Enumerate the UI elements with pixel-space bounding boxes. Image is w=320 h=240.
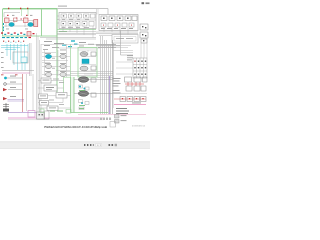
block: right lamp cluster 2 xyxy=(120,97,146,102)
wire: red rail cluster 2 xyxy=(114,98,146,100)
wire: ECU internal xyxy=(81,50,96,74)
switch S1 (cyan box) xyxy=(21,57,27,63)
horn H2 (red) xyxy=(3,97,7,100)
wire: center links xyxy=(38,81,71,109)
wire: cyan harness horizontals xyxy=(1,46,28,50)
wire: drops from far-right cluster to grid xyxy=(141,38,147,58)
node: teal taps xyxy=(62,45,66,46)
node row: red terminal dots xyxy=(3,41,24,43)
battery BT1 xyxy=(3,103,9,112)
block: green box (right empty half) xyxy=(42,9,58,36)
svg-text:4/17/2018 1:05: 4/17/2018 1:05 xyxy=(132,125,146,127)
label relay names xyxy=(45,53,66,72)
label green codes bottom xyxy=(40,109,44,113)
header page label B-1 xyxy=(142,2,150,4)
wire: green highlighted bus (double vertical) xyxy=(71,77,75,113)
wire: purple horizontal xyxy=(8,112,38,114)
wire xyxy=(7,83,23,85)
wire: cyan drops below switch xyxy=(22,63,25,71)
connector J8 xyxy=(91,93,96,97)
wire: long pink bottom rail xyxy=(8,117,104,119)
relay K1 (cyan) xyxy=(45,54,51,58)
label center tiny xyxy=(49,79,64,105)
label top bus xyxy=(58,6,67,7)
fuse F1 (red box) xyxy=(34,20,38,27)
relay K4 xyxy=(60,64,66,68)
pin row module A top xyxy=(61,14,95,20)
wire: feeder from green box to module A xyxy=(57,16,59,23)
gauge G3 (dark oval) xyxy=(78,91,88,97)
relay K2 xyxy=(60,54,66,58)
block: green ECU box center-right xyxy=(78,48,97,78)
block: bottom connectors xyxy=(28,111,49,120)
block: far right connector cluster xyxy=(140,24,148,43)
label right harness codes xyxy=(113,78,121,93)
legend connector symbols xyxy=(115,115,127,124)
gauge G2 (dark oval) xyxy=(78,77,88,83)
wire: magenta horizontal y73 xyxy=(2,72,30,74)
wire: cyan harness verticals xyxy=(7,44,28,70)
regulator U2 (cyan box) xyxy=(82,59,89,64)
label relay group xyxy=(43,41,66,50)
lamp L1 (teal) xyxy=(4,77,7,80)
footnote box xyxy=(110,122,116,128)
label red codes xyxy=(1,74,4,75)
wire: green vertical trunk x57 xyxy=(56,9,58,92)
wire: right section divider xyxy=(113,76,147,108)
label left components xyxy=(10,76,16,97)
wire: relay grid rails xyxy=(42,50,70,76)
wire: bus under module A xyxy=(40,32,96,39)
wire: right mid horizontals xyxy=(114,46,134,75)
wire: long gray bottom rail xyxy=(8,119,104,121)
wire: center-left vertical bus xyxy=(37,33,42,112)
wire: top-left internal wires xyxy=(4,13,38,28)
relay K5 xyxy=(45,72,51,76)
wire: green power bus top horizontal xyxy=(3,8,57,10)
wire: right top drop xyxy=(121,31,134,56)
wire: pink bottom crossing xyxy=(78,114,146,116)
connector row at bus end xyxy=(100,118,111,121)
wire: left gray verticals xyxy=(27,74,34,111)
motor M2 (cyan ellipse) xyxy=(28,23,33,27)
generator G1 (hatched ellipse) xyxy=(80,52,88,57)
label module B codes xyxy=(101,27,133,30)
connector J5 xyxy=(91,52,96,56)
label above ECU box xyxy=(79,42,94,46)
relay K6 xyxy=(60,72,66,76)
label left margin codes xyxy=(1,52,4,68)
horn H1 (red) xyxy=(3,88,7,91)
wire: gray top bus to right xyxy=(57,9,108,16)
wire: bus under module B xyxy=(96,32,138,35)
block: wide box under module B xyxy=(112,35,138,44)
wire: green rail under module A xyxy=(57,29,96,31)
wire: purple run in bus xyxy=(109,76,111,114)
wire: module A drops xyxy=(63,26,93,38)
node: teal sender taps xyxy=(79,86,81,88)
wire: green bus horizontal run xyxy=(71,112,109,114)
wire: ECU top rail xyxy=(78,49,97,51)
wire: green branch upper xyxy=(70,44,72,77)
block: connector module A (top middle) xyxy=(59,13,96,29)
wire xyxy=(8,89,22,91)
wire: pink rail xyxy=(114,104,146,106)
block: switch box outline xyxy=(13,52,28,63)
wire: gray horizontal y70 xyxy=(2,70,34,72)
connector J6 xyxy=(91,66,96,70)
label mid-right text block xyxy=(127,55,133,60)
relay K3 xyxy=(45,64,51,68)
sender symbol xyxy=(4,83,7,86)
wire: red feed vertical xyxy=(22,74,24,112)
wire xyxy=(7,77,22,79)
label green trunk xyxy=(59,31,67,32)
label teal code row xyxy=(2,37,31,38)
motor M1 (cyan ellipse) xyxy=(9,23,14,27)
wire: dark merge segments xyxy=(96,44,120,47)
block: right lamp cluster 1 xyxy=(125,77,148,91)
toolbar icons xyxy=(84,144,117,147)
toolbar background xyxy=(0,142,150,149)
node: cyan taps near green band xyxy=(71,40,75,41)
label green codes xyxy=(79,89,85,92)
wire: gray vertical pair left-center xyxy=(30,43,32,76)
block: right connector grid xyxy=(133,58,147,78)
wire: vertical x66 + horizontals lower center xyxy=(67,44,114,78)
wire: green drops from bus xyxy=(22,9,29,16)
label right notes xyxy=(116,103,141,115)
label red marks top xyxy=(7,15,9,16)
wire: red links cluster 1 xyxy=(125,82,144,86)
wire: right main vertical bus xyxy=(101,36,111,114)
wire: verticals above module B xyxy=(97,9,99,15)
label connector row (red/teal codes) xyxy=(1,32,35,37)
block: connector module B (top right) xyxy=(99,15,138,31)
wire: module A internal rails xyxy=(59,19,96,20)
resistor R2 (red box) xyxy=(24,18,29,23)
wire: long horizontals center xyxy=(41,45,100,49)
block: battery/charging green box (left) xyxy=(3,9,42,36)
pin row module B lower xyxy=(101,23,134,27)
pin cells module B xyxy=(101,16,137,21)
svg-text:PWR/GEN GROUP WIRING CIRCUIT -: PWR/GEN GROUP WIRING CIRCUIT - IN CIRCUI… xyxy=(44,125,107,129)
pin row module A bottom xyxy=(61,22,94,28)
block: center control boxes xyxy=(39,78,68,111)
wire: green branch x63 xyxy=(64,77,71,96)
wire: purple pair from horn xyxy=(8,100,25,102)
sensor boxes in gauge column xyxy=(79,85,90,110)
coil T1 xyxy=(80,66,88,71)
node: red taps on green bus xyxy=(8,8,9,10)
wire: module B drops xyxy=(104,27,128,35)
wire: gauge outputs xyxy=(74,80,113,94)
wire: dark bus edge xyxy=(112,40,114,114)
resistor R1 (red box) xyxy=(5,18,10,23)
connector J7 xyxy=(91,78,96,82)
wire: vertical x113 xyxy=(113,43,115,80)
